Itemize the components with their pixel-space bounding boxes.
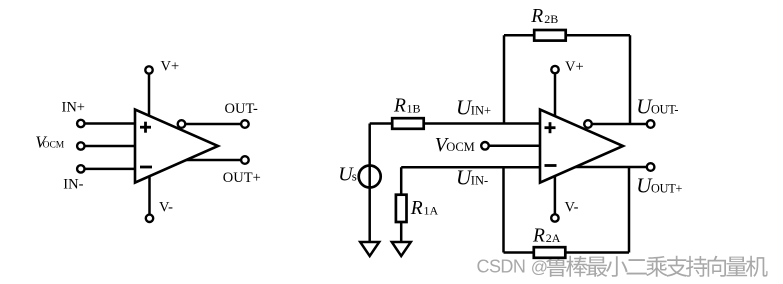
svg-text:R: R (410, 198, 423, 219)
terminal V- right (551, 214, 558, 221)
svg-text:2A: 2A (546, 231, 561, 245)
wire VOCM right (489, 145, 540, 148)
svg-text:IN-: IN- (63, 176, 83, 192)
svg-text:IN+: IN+ (62, 100, 85, 116)
resistor R2B (534, 30, 566, 41)
wire feedback bottom horizontal (504, 251, 630, 254)
inversion bubble right OUT- (584, 120, 592, 128)
plus marking (545, 122, 556, 133)
wire source vertical (368, 124, 371, 244)
wire UOUT- (592, 123, 647, 126)
svg-text:V+: V+ (565, 59, 584, 75)
wire OUT+ (186, 159, 241, 162)
wire V- right (554, 176, 557, 214)
terminal VOCM (77, 142, 84, 149)
terminal OUT- (241, 120, 249, 128)
svg-text:OUT-: OUT- (651, 102, 678, 116)
resistor R2A (534, 247, 566, 258)
wire V+ (148, 74, 151, 116)
wire OUT- (185, 123, 241, 126)
svg-text:OCM: OCM (43, 140, 65, 150)
svg-text:OUT+: OUT+ (651, 181, 682, 195)
svg-text:OCM: OCM (446, 140, 474, 154)
resistor R1B (392, 118, 424, 129)
source Us (359, 166, 381, 188)
terminal VOCM right (481, 142, 489, 150)
wire feedback bottom right vertical (628, 167, 631, 253)
ground below source (360, 242, 379, 256)
wire UOUT+ (575, 166, 646, 169)
terminal V- (146, 215, 153, 222)
minus marking (140, 166, 152, 169)
svg-text:CSDN: CSDN (477, 256, 526, 276)
terminal V+ right (551, 66, 558, 73)
terminal IN+ (77, 120, 84, 127)
svg-text:V+: V+ (161, 58, 180, 74)
svg-text:V-: V- (159, 200, 173, 216)
wire UIN+ row (370, 122, 540, 125)
op-amp U1 triangle (540, 110, 623, 183)
wire V+ right (554, 73, 557, 116)
wire feedback top left vertical (503, 35, 506, 123)
terminal IN- (77, 165, 84, 172)
svg-text:R: R (393, 96, 406, 117)
wire IN- (85, 168, 135, 171)
svg-text:s: s (352, 169, 357, 184)
svg-text:OUT+: OUT+ (223, 170, 261, 186)
svg-text:R: R (530, 6, 543, 27)
terminal V+ (145, 66, 152, 73)
svg-text:IN-: IN- (471, 174, 488, 188)
terminal OUT+ (241, 156, 249, 164)
watermark CJK glyphs (546, 256, 768, 277)
minus marking (545, 164, 557, 167)
ground below R1A (392, 242, 411, 256)
wire IN+ (85, 122, 135, 125)
wire VOCM (85, 145, 135, 148)
svg-text:IN+: IN+ (471, 104, 491, 118)
wire feedback top horizontal (504, 34, 630, 37)
inversion bubble OUT- (178, 120, 186, 128)
wire feedback bottom left vertical (502, 167, 505, 252)
svg-text:2B: 2B (544, 12, 558, 26)
svg-text:1B: 1B (407, 101, 421, 115)
wire R1A vertical (400, 167, 403, 243)
wire feedback top right vertical (629, 35, 632, 124)
wire UIN- row (401, 166, 540, 169)
terminal UOUT+ (647, 163, 655, 171)
svg-text:V-: V- (565, 199, 579, 215)
svg-text:@: @ (531, 257, 548, 276)
svg-text:1A: 1A (424, 204, 439, 218)
svg-text:R: R (532, 225, 545, 246)
resistor R1A (396, 195, 407, 222)
svg-text:OUT-: OUT- (225, 101, 258, 117)
plus marking (140, 122, 151, 133)
terminal UOUT- (647, 120, 655, 128)
op-amp A1 triangle (135, 110, 218, 183)
wire V- (148, 176, 151, 214)
